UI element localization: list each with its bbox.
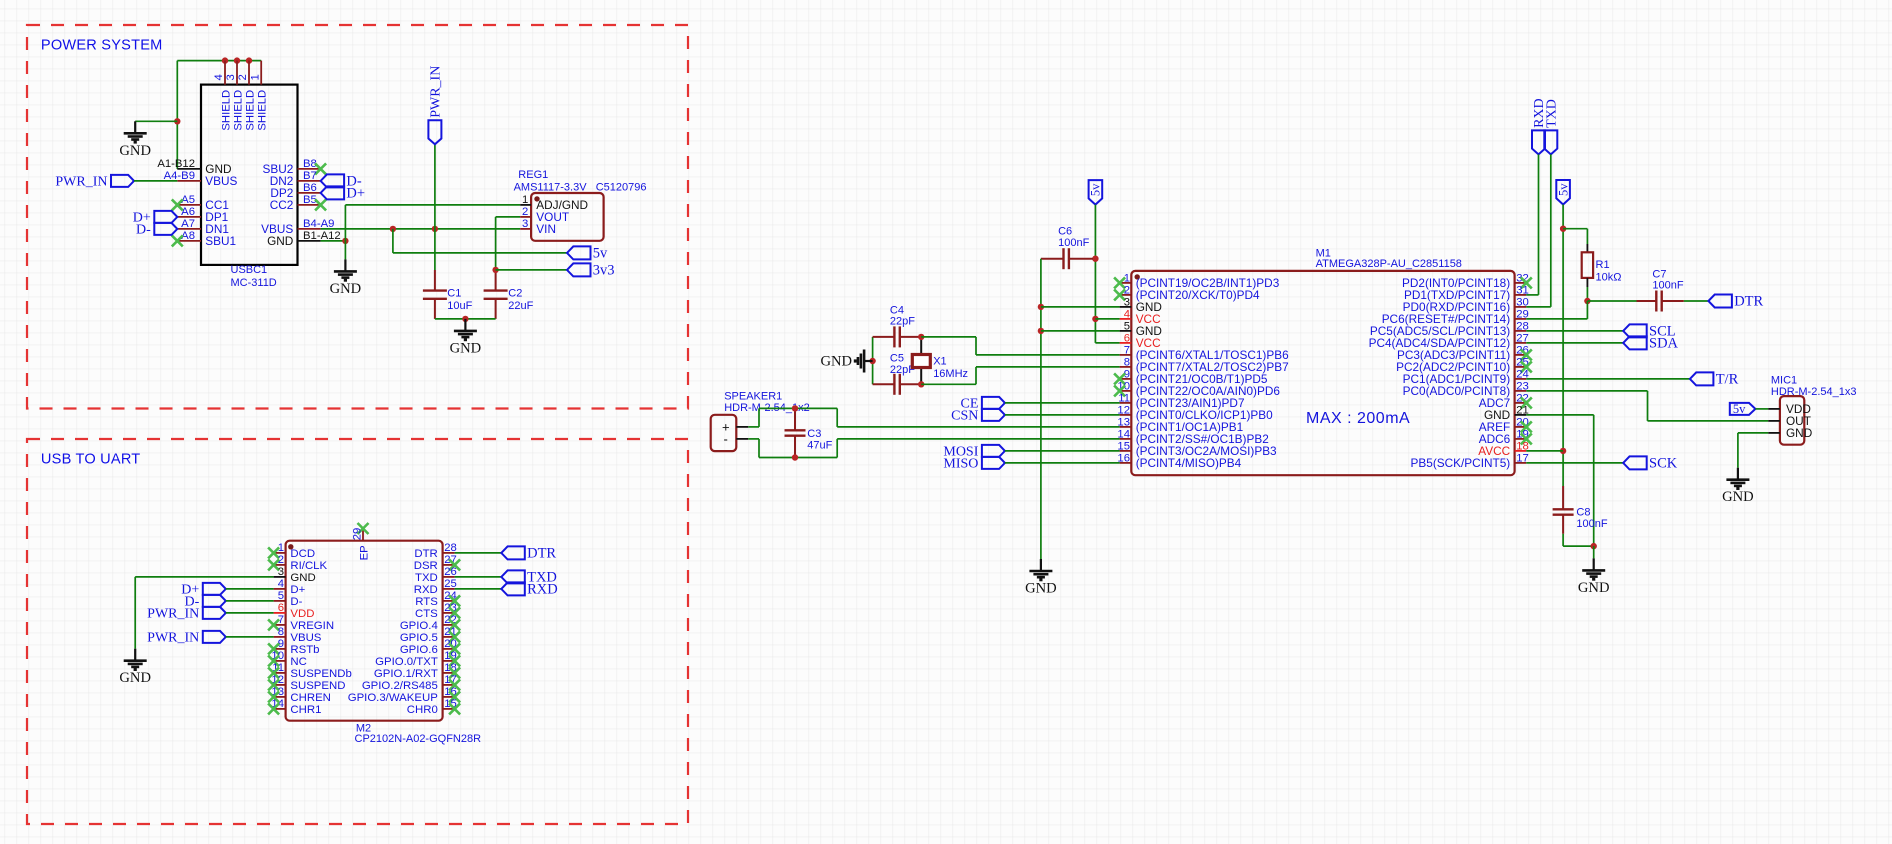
pin 1 (PCINT19/OC2B/INT1)PD3 [1120,282,1132,284]
wire [759,457,837,459]
pin A5 CC1 [177,204,201,206]
svg-text:MISO: MISO [943,457,978,472]
svg-text:10kΩ: 10kΩ [1596,271,1622,283]
svg-text:3: 3 [1124,296,1130,308]
svg-text:3: 3 [225,74,237,80]
pin 2 VOUT [520,216,531,218]
pin 18 GPIO.1/RXT [443,672,455,674]
pin 17 GPIO.2/RS485 [443,684,455,686]
svg-text:C5: C5 [890,353,904,365]
svg-text:GND: GND [1786,426,1812,440]
junction gnd branch [174,118,180,124]
no-connect X [449,619,460,630]
no-connect X [449,667,460,678]
svg-text:POWER SYSTEM: POWER SYSTEM [41,38,163,54]
svg-text:8: 8 [278,626,284,638]
wire gnd vertical [344,205,346,260]
wire [226,600,274,602]
junction [1092,316,1098,322]
wire [872,337,874,384]
pin B4-A9 VBUS [298,228,321,230]
pin 2 OUT [1768,420,1780,422]
svg-text:5v: 5v [1556,183,1570,196]
svg-text:GND: GND [290,572,315,584]
no-connect X [1521,361,1532,372]
junction [869,358,875,364]
junction [792,405,798,411]
wire to pin4 VCC [1095,318,1119,320]
wire [134,577,136,649]
pin A4-B9 VBUS [177,180,201,182]
pin 12 (PCINT0/CLKO/ICP1)PB0 [1120,414,1132,416]
wire [135,120,177,122]
no-connect X [1521,421,1532,432]
pin A6 DP1 [177,216,201,218]
svg-text:D-: D- [136,223,151,238]
svg-text:C2: C2 [508,287,522,299]
svg-text:DTR: DTR [1734,294,1763,310]
svg-text:6: 6 [278,602,284,614]
no-connect X [449,679,460,690]
wire [748,438,759,440]
pin 6 VDD [274,612,286,614]
pin 19 GPIO.0/TXT [443,660,455,662]
pin 10 (PCINT22/OC0A/AIN0)PD6 [1120,390,1132,392]
svg-text:C6: C6 [1058,226,1072,238]
pin B5 CC2 [298,204,321,206]
svg-text:C5120796: C5120796 [596,181,647,193]
junction [1560,448,1566,454]
junction [1038,328,1044,334]
pin A8 SBU1 [177,240,201,242]
svg-text:SUSPEND: SUSPEND [290,680,345,692]
pin 1 SHIELD stub [260,61,262,85]
wire [837,426,1119,428]
ground GND (C8) [1582,558,1605,579]
junction [222,57,228,63]
no-connect X [1521,349,1532,360]
wire [177,60,261,62]
svg-text:SDA: SDA [1649,336,1679,352]
svg-text:PWR_IN: PWR_IN [147,607,199,622]
svg-text:3: 3 [278,566,284,578]
pin 30 PD0(RXD/PCINT16) [1515,306,1527,308]
svg-text:CP2102N-A02-GQFN28R: CP2102N-A02-GQFN28R [355,733,482,745]
pin 14 (PCINT2/SS#/OC1B)PB2 [1120,438,1132,440]
svg-text:CSN: CSN [951,409,978,424]
svg-text:CC2: CC2 [270,198,294,212]
wire [226,588,274,590]
pin 13 CHREN [274,696,286,698]
power port 3v3 [567,263,591,276]
junction [1560,226,1566,232]
ground GND (reg input) [334,259,357,280]
svg-text:C4: C4 [890,304,904,316]
wire to pin3 GND [1041,306,1120,308]
wire gnd to ADJ [345,204,520,206]
wire [1562,534,1564,546]
net flag T/R [1690,372,1714,385]
no-connect X [449,559,460,570]
svg-text:5: 5 [278,590,284,602]
wire [176,61,178,169]
power port 5v [1730,403,1756,415]
svg-text:29: 29 [351,528,363,541]
pin 21 GND [1515,414,1527,416]
wire [1563,545,1594,547]
svg-text:MC-311D: MC-311D [231,277,277,289]
pin 22 GPIO.4 [443,624,455,626]
svg-text:100nF: 100nF [1058,237,1089,249]
pin 20 GPIO.6 [443,648,455,650]
pin 27 DSR [443,564,455,566]
net flag DTR [1708,295,1732,308]
wire RXD [455,588,502,590]
junction [1038,304,1044,310]
pin 5 GND [1120,330,1132,332]
junction [1591,543,1597,549]
svg-text:CHR0: CHR0 [407,704,438,716]
wire [1738,432,1768,434]
svg-text:ATMEGA328P-AU_C2851158: ATMEGA328P-AU_C2851158 [1316,258,1462,270]
section box USB TO UART [27,439,688,824]
svg-text:GND: GND [1578,580,1610,596]
junction [492,267,498,273]
svg-text:REG1: REG1 [518,169,548,181]
svg-text:T/R: T/R [1716,372,1739,388]
no-connect X [449,607,460,618]
pin 8 (PCINT7/XTAL2/TOSC2)PB7 [1120,366,1132,368]
pin 24 PC1(ADC1/PCINT9) [1515,378,1527,380]
svg-text:5v: 5v [1733,402,1746,416]
pin 3 SHIELD stub [236,61,238,85]
pin 10 NC [274,660,286,662]
wire to AVCC [1526,450,1563,452]
svg-text:TXD: TXD [1545,99,1560,128]
wire [758,439,760,458]
pin 9 RSTb [274,648,286,650]
no-connect X [1521,397,1532,408]
pin 7 (PCINT6/XTAL1/TOSC1)PB6 [1120,354,1132,356]
connector MIC1 body [1780,396,1804,445]
pin 5 D- [274,600,286,602]
svg-text:DTR: DTR [414,548,437,560]
wire [434,144,436,270]
svg-text:4: 4 [278,578,284,590]
svg-text:GPIO.0/TXT: GPIO.0/TXT [375,656,438,668]
ground GND (crystal) [855,350,872,373]
wire [1526,342,1623,344]
pin B7 DN2 [298,180,321,182]
wire [1005,402,1120,404]
capacitor C6 100nF [1041,248,1093,269]
capacitor C2 22uF [484,270,508,319]
pin 16 GPIO.3/WAKEUP [443,696,455,698]
svg-text:CTS: CTS [415,608,438,620]
no-connect X [1521,433,1532,444]
wire [392,229,394,253]
no-connect X [172,235,183,246]
wire to pin5 GND [1041,330,1120,332]
capacitor C1 10uF [423,270,447,319]
svg-text:C3: C3 [807,428,821,440]
svg-text:(PCINT4/MISO)PB4: (PCINT4/MISO)PB4 [1136,456,1242,470]
pin 23 CTS [443,612,455,614]
pin 28 DTR [443,552,455,554]
pin 3 VIN [520,228,531,230]
wire [748,426,759,428]
no-connect X [268,703,279,714]
svg-text:PB5(SCK/PCINT5): PB5(SCK/PCINT5) [1411,456,1511,470]
svg-text:D+: D+ [290,584,305,596]
pin 24 RTS [443,600,455,602]
no-connect X [268,643,279,654]
svg-text:EP: EP [359,545,371,560]
pin 9 (PCINT21/OC0B/T1)PD5 [1120,378,1132,380]
wire [1737,433,1739,468]
pin 15 CHR0 [443,708,455,710]
svg-text:CHR1: CHR1 [290,704,321,716]
svg-text:DTR: DTR [527,546,556,562]
pin 20 AREF [1515,426,1527,428]
net flag D- [154,223,177,235]
no-connect X [1521,277,1532,288]
svg-text:16MHz: 16MHz [933,368,968,380]
pin 3 GND [1768,432,1780,434]
capacitor C5 22pF [873,374,922,395]
pin 12 SUSPEND [274,684,286,686]
junction [918,334,924,340]
wire TXD [1550,154,1552,307]
svg-text:SBU1: SBU1 [205,234,236,248]
svg-text:D-: D- [290,596,302,608]
pin 26 PC3(ADC3/PCINT11) [1515,354,1527,356]
wire [1647,391,1649,421]
no-connect X [449,631,460,642]
no-connect X [315,199,326,210]
svg-text:RXD: RXD [527,582,558,598]
pin A1-B12 GND [177,168,201,170]
no-connect X [268,667,279,678]
pin 2 SHIELD stub [248,61,250,85]
pin 15 (PCINT3/OC2A/MOSI)PB3 [1120,450,1132,452]
svg-text:7: 7 [1124,344,1130,356]
no-connect X [1114,373,1125,384]
svg-text:RTS: RTS [415,596,438,608]
net flag D+ [321,186,345,199]
svg-text:SCK: SCK [1649,456,1678,472]
wire [1593,415,1595,546]
svg-text:USBC1: USBC1 [231,264,268,276]
pin 11 SUSPENDb [274,672,286,674]
junction [792,454,798,460]
svg-text:DSR: DSR [414,560,438,572]
pin 1 VDD [1768,408,1780,410]
svg-text:GND: GND [330,281,362,297]
svg-text:C7: C7 [1652,268,1666,280]
svg-text:VREGIN: VREGIN [290,620,334,632]
svg-text:RI/CLK: RI/CLK [290,560,327,572]
no-connect X [268,547,279,558]
net flag PWR_IN (vdd) [203,607,226,619]
no-connect X [172,199,183,210]
svg-text:PWR_IN: PWR_IN [429,66,444,118]
junction [234,57,240,63]
pin 17 PB5(SCK/PCINT5) [1515,462,1527,464]
net flag CE [982,397,1005,409]
wire [1005,462,1120,464]
IC M1 ATMEGA328P body [1131,271,1514,475]
wire [226,612,274,614]
wire [1526,330,1623,332]
wire [837,438,1119,440]
svg-text:3v3: 3v3 [593,263,615,279]
svg-text:GND: GND [119,143,151,159]
svg-text:100nF: 100nF [1576,518,1607,530]
no-connect X [268,679,279,690]
pin 31 PD1(TXD/PCINT17) [1515,294,1527,296]
svg-text:AMS1117-3.3V: AMS1117-3.3V [514,181,588,193]
wire [975,367,977,384]
wire to pin6 VCC [1095,342,1119,344]
power port 5v [1089,180,1103,205]
ground GND (mic) [1726,468,1749,489]
svg-text:GPIO.2/RS485: GPIO.2/RS485 [362,680,438,692]
svg-text:3: 3 [522,218,528,230]
svg-text:5v: 5v [1089,183,1103,196]
junction [432,226,438,232]
section box POWER SYSTEM [27,25,688,409]
net flag SCK [1623,456,1647,469]
svg-text:CHREN: CHREN [290,692,331,704]
wire [921,383,976,385]
wire [759,407,837,409]
svg-text:MIC1: MIC1 [1771,375,1797,387]
svg-text:GND: GND [1025,581,1057,597]
power port 5v [1556,180,1570,205]
svg-text:GND: GND [450,340,482,356]
net flag MOSI [982,445,1005,457]
pin 1 DCD [274,552,286,554]
wire [921,336,976,338]
pin 27 PC4(ADC4/SDA/PCINT12) [1515,342,1527,344]
wire [1526,294,1538,296]
svg-text:D+: D+ [346,186,365,202]
wire [1593,546,1595,558]
wire [495,217,497,270]
net flag RXD (uart) [501,582,525,595]
wire [1563,228,1587,230]
svg-text:USB TO UART: USB TO UART [41,452,141,468]
wire DTR [455,552,502,554]
wire [976,354,1120,356]
svg-text:R1: R1 [1596,259,1610,271]
pin 8 VBUS [274,636,286,638]
wire 5v rail [1562,205,1564,487]
wire [1526,414,1593,416]
net flag RXD [1532,130,1545,154]
svg-text:10uF: 10uF [447,300,472,312]
wire [836,408,838,427]
pin 2 - [736,438,748,440]
no-connect X [268,655,279,666]
wire [1526,306,1551,308]
svg-text:A7: A7 [181,218,195,230]
svg-text:B7: B7 [303,170,317,182]
svg-text:NC: NC [290,656,306,668]
net flag TXD [1544,130,1557,154]
svg-text:GPIO.4: GPIO.4 [400,620,438,632]
pin 4 D+ [274,588,286,590]
svg-text:47uF: 47uF [807,440,832,452]
net flag PWR_IN (vbus) [203,631,226,643]
wire [1648,420,1769,422]
net flag D+ [154,211,177,223]
wire [321,240,346,242]
wire [1040,259,1042,559]
regulator REG1 AMS1117-3.3V [531,193,604,241]
no-connect X [449,703,460,714]
junction [246,57,252,63]
pin B8 SBU2 [298,168,321,170]
junction [462,316,468,322]
pin B6 DP2 [298,192,321,194]
svg-text:SHIELD: SHIELD [232,90,244,131]
pin 29 EP (top) [362,529,364,541]
svg-text:2: 2 [522,206,528,218]
net flag CSN [982,409,1005,421]
pin 2 (PCINT20/XCK/T0)PD4 [1120,294,1132,296]
pin 13 (PCINT1/OC1A)PB1 [1120,426,1132,428]
wire RXD [1538,154,1540,295]
junction [1584,298,1590,304]
wire [1005,450,1120,452]
pin 6 VCC [1120,342,1132,344]
junction [918,381,924,387]
no-connect X [358,523,369,534]
wire [226,636,274,638]
svg-text:GPIO.3/WAKEUP: GPIO.3/WAKEUP [348,692,438,704]
svg-text:SHIELD: SHIELD [257,90,269,131]
svg-text:GPIO.1/RXT: GPIO.1/RXT [374,668,438,680]
pin 28 PC5(ADC5/SCL/PCINT13) [1515,330,1527,332]
pin 26 TXD [443,576,455,578]
connector USBC1 MC-311D body [201,85,298,265]
wire TXD [455,576,502,578]
no-connect X [449,655,460,666]
pin 11 (PCINT23/AIN1)PD7 [1120,402,1132,404]
svg-text:C8: C8 [1576,507,1590,519]
svg-text:1: 1 [522,194,528,206]
net flag DTR (uart) [501,546,525,559]
svg-text:SHIELD: SHIELD [244,90,256,131]
pin 7 VREGIN [274,624,286,626]
svg-text:5v: 5v [593,246,608,262]
svg-text:GPIO.6: GPIO.6 [400,644,438,656]
ground GND (caps) [454,319,477,340]
pin B1-A12 GND [298,240,321,242]
pin 23 PC0(ADC0/PCINT8) [1515,390,1527,392]
connector SPEAKER1 body [711,415,737,451]
wire [1587,300,1636,302]
no-connect X [449,643,460,654]
ground GND (uart) [124,649,147,670]
capacitor C8 100nF [1553,486,1574,534]
net flag D+ (uart) [203,583,226,595]
wire [1586,301,1588,319]
ground GND (usb-c shield) [124,121,147,142]
pin 4 VCC [1120,318,1132,320]
